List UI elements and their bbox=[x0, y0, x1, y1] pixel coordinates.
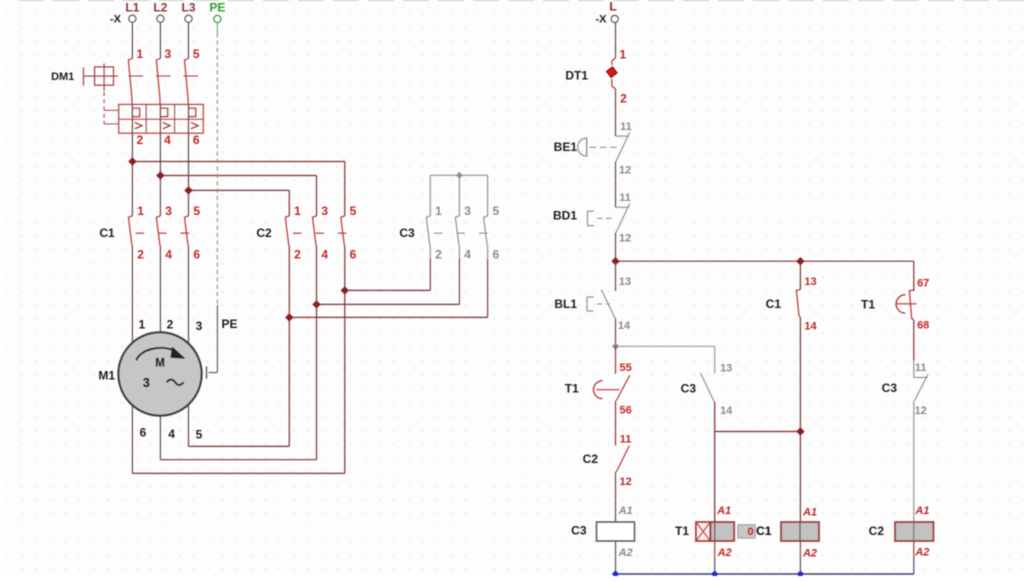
svg-text:T1: T1 bbox=[565, 381, 579, 395]
svg-text:12: 12 bbox=[619, 233, 631, 245]
svg-text:3: 3 bbox=[196, 319, 203, 333]
svg-text:1: 1 bbox=[435, 204, 442, 218]
svg-text:3: 3 bbox=[165, 204, 172, 218]
svg-text:T1: T1 bbox=[675, 524, 689, 538]
svg-text:1: 1 bbox=[136, 47, 143, 61]
svg-text:56: 56 bbox=[619, 404, 631, 416]
svg-text:A2: A2 bbox=[914, 547, 929, 559]
svg-text:12: 12 bbox=[619, 164, 631, 176]
svg-text:14: 14 bbox=[618, 320, 631, 332]
svg-text:BL1: BL1 bbox=[554, 297, 577, 311]
svg-text:1: 1 bbox=[294, 204, 301, 218]
svg-text:55: 55 bbox=[619, 362, 631, 374]
svg-text:C2: C2 bbox=[256, 226, 272, 240]
svg-text:13: 13 bbox=[804, 276, 816, 288]
svg-text:C3: C3 bbox=[882, 381, 898, 395]
svg-text:-X: -X bbox=[596, 13, 608, 25]
svg-text:1: 1 bbox=[138, 318, 145, 332]
svg-text:5: 5 bbox=[196, 428, 203, 442]
svg-text:2: 2 bbox=[294, 247, 301, 261]
svg-text:67: 67 bbox=[917, 278, 929, 290]
svg-text:0: 0 bbox=[747, 526, 753, 538]
svg-text:A1: A1 bbox=[716, 505, 731, 517]
svg-text:A2: A2 bbox=[802, 548, 817, 560]
svg-text:14: 14 bbox=[720, 405, 733, 417]
svg-text:A1: A1 bbox=[618, 505, 633, 517]
svg-text:A2: A2 bbox=[717, 547, 732, 559]
svg-text:C2: C2 bbox=[583, 452, 599, 466]
svg-text:11: 11 bbox=[620, 434, 632, 446]
svg-text:2: 2 bbox=[620, 91, 627, 105]
svg-text:3: 3 bbox=[321, 204, 328, 218]
svg-text:1: 1 bbox=[137, 204, 144, 218]
svg-text:A1: A1 bbox=[914, 505, 929, 517]
svg-text:M1: M1 bbox=[98, 369, 115, 383]
svg-text:L3: L3 bbox=[181, 1, 195, 15]
svg-text:L: L bbox=[609, 0, 616, 14]
svg-text:2: 2 bbox=[137, 247, 144, 261]
svg-text:13: 13 bbox=[619, 276, 631, 288]
svg-text:11: 11 bbox=[620, 121, 632, 133]
svg-text:2: 2 bbox=[435, 247, 442, 261]
svg-text:1: 1 bbox=[619, 48, 626, 62]
svg-text:12: 12 bbox=[915, 405, 927, 417]
svg-text:2: 2 bbox=[136, 133, 143, 147]
svg-text:C1: C1 bbox=[99, 226, 115, 240]
svg-text:A1: A1 bbox=[802, 506, 817, 518]
svg-text:C3: C3 bbox=[681, 382, 697, 396]
svg-text:4: 4 bbox=[164, 133, 171, 147]
svg-text:2: 2 bbox=[167, 317, 174, 331]
svg-text:C3: C3 bbox=[399, 226, 415, 240]
svg-text:5: 5 bbox=[193, 204, 200, 218]
svg-text:4: 4 bbox=[464, 247, 471, 261]
svg-text:C1: C1 bbox=[766, 297, 782, 311]
svg-text:3: 3 bbox=[143, 376, 150, 390]
svg-text:BE1: BE1 bbox=[554, 140, 578, 154]
svg-text:6: 6 bbox=[193, 133, 200, 147]
svg-text:5: 5 bbox=[193, 47, 200, 61]
svg-text:L1: L1 bbox=[125, 1, 139, 15]
svg-text:BD1: BD1 bbox=[553, 208, 577, 222]
svg-text:-X: -X bbox=[110, 13, 122, 25]
svg-text:C1: C1 bbox=[756, 524, 772, 538]
svg-text:6: 6 bbox=[193, 247, 200, 261]
svg-text:PE: PE bbox=[221, 317, 237, 331]
svg-text:4: 4 bbox=[321, 247, 328, 261]
svg-text:T1: T1 bbox=[861, 297, 875, 311]
svg-text:4: 4 bbox=[165, 247, 172, 261]
svg-text:6: 6 bbox=[492, 247, 499, 261]
svg-text:DM1: DM1 bbox=[51, 71, 74, 83]
svg-text:M: M bbox=[155, 358, 165, 370]
svg-text:11: 11 bbox=[915, 362, 927, 374]
svg-text:13: 13 bbox=[720, 363, 732, 375]
svg-text:L2: L2 bbox=[153, 1, 167, 15]
svg-text:PE: PE bbox=[209, 1, 225, 15]
svg-text:68: 68 bbox=[917, 320, 929, 332]
svg-text:12: 12 bbox=[619, 476, 631, 488]
svg-text:11: 11 bbox=[619, 192, 631, 204]
svg-text:6: 6 bbox=[140, 425, 147, 439]
svg-text:4: 4 bbox=[168, 427, 175, 441]
svg-text:C2: C2 bbox=[869, 524, 885, 538]
svg-text:3: 3 bbox=[164, 47, 171, 61]
svg-text:5: 5 bbox=[350, 204, 357, 218]
svg-text:C3: C3 bbox=[571, 523, 587, 537]
svg-text:DT1: DT1 bbox=[565, 68, 588, 82]
svg-text:5: 5 bbox=[492, 204, 499, 218]
svg-text:3: 3 bbox=[464, 204, 471, 218]
svg-text:14: 14 bbox=[804, 321, 817, 333]
svg-text:6: 6 bbox=[350, 247, 357, 261]
svg-text:A2: A2 bbox=[618, 547, 633, 559]
